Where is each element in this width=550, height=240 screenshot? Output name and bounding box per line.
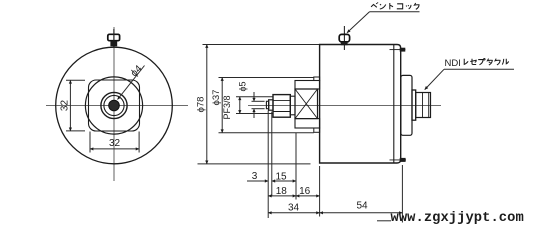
hex flat line top — [273, 99, 290, 101]
dim 34: dimension line — [268, 212, 319, 214]
dim phi78: dimension line — [206, 45, 208, 164]
watermark stray line — [377, 220, 391, 222]
side view: body seam line — [393, 45, 395, 164]
front view: phi4 hole (hatched) — [109, 100, 120, 111]
top lug — [400, 48, 406, 52]
label receptacle katakana — [464, 58, 508, 65]
svg-text:3: 3 — [252, 171, 258, 182]
side view: body outline — [320, 45, 401, 164]
dim PF3/8: dimension line — [239, 97, 241, 114]
svg-text:32: 32 — [109, 138, 121, 149]
dim 32 horizontal: extension lines — [89, 132, 91, 153]
svg-text:www.zgxjjypt.com: www.zgxjjypt.com — [391, 210, 524, 226]
barrel inner line 1 — [422, 93, 424, 118]
front view: horizontal centerline — [46, 105, 188, 107]
barrel inner line 2 — [428, 93, 430, 118]
pu — [478, 58, 485, 64]
dim 16: dimension line — [296, 195, 320, 197]
dim PF3/8: extension lines — [236, 96, 273, 98]
top lug line — [390, 49, 406, 51]
re — [464, 59, 468, 65]
dim 18: dimension line — [268, 195, 296, 197]
dim 32 vertical: dimension line — [69, 80, 71, 131]
svg-text:32: 32 — [59, 100, 70, 112]
front view: inner circle 1 — [101, 92, 127, 118]
svg-text:16: 16 — [299, 186, 311, 197]
side view: horizontal centerline — [248, 104, 441, 106]
svg-text:NDI: NDI — [445, 58, 461, 69]
side view: vent cock stem centerline — [343, 26, 345, 50]
svg-text:18: 18 — [276, 186, 288, 197]
label NDI receptacle leader — [425, 69, 444, 89]
front view: rounded square boss 32x32 — [89, 80, 140, 131]
ku — [495, 59, 500, 65]
hex flat line bottom — [273, 111, 290, 113]
small tsu — [406, 5, 411, 9]
dim 32 horizontal: dimension line — [90, 148, 139, 150]
to — [390, 3, 393, 9]
se — [470, 59, 476, 65]
front view: vent stem — [113, 29, 115, 47]
svg-text:15: 15 — [275, 171, 287, 182]
front view: hub circle — [85, 77, 142, 134]
be — [371, 2, 378, 7]
bottom dims: extension line at pipe tip — [267, 111, 269, 219]
side view: top step — [314, 77, 320, 81]
svg-text:ϕ78: ϕ78 — [195, 97, 206, 113]
dim 54: dimension line — [320, 212, 403, 214]
front view: vertical centerline — [113, 27, 115, 181]
front view: vent cock knob — [108, 34, 120, 40]
svg-text:PF3/8: PF3/8 — [222, 95, 232, 119]
label vent cock leader underline — [370, 11, 420, 13]
side view: square boss face (X-box) — [295, 89, 318, 119]
extension line at body face — [319, 166, 321, 217]
dim phi5: extension lines — [252, 100, 265, 102]
front view: body circle (phi78) — [56, 47, 173, 164]
bottom lug line — [390, 159, 407, 161]
ta — [487, 59, 492, 65]
svg-text:ϕ5: ϕ5 — [238, 81, 248, 91]
dim 3: tail with arrow — [247, 180, 268, 182]
front view: vent cock base — [110, 41, 117, 46]
svg-text:ϕ4: ϕ4 — [129, 63, 145, 79]
label vent cock leader — [347, 12, 370, 33]
extension line at hex face — [271, 112, 273, 197]
bottom lug — [400, 158, 406, 162]
side view: pipe stub phi5 — [266, 101, 268, 108]
ru — [502, 59, 508, 65]
svg-text:34: 34 — [288, 203, 300, 214]
side view: bottom plate of boss — [295, 119, 320, 128]
side view: thread neck — [290, 96, 295, 115]
n — [380, 4, 386, 9]
dim phi5: upper arrow — [253, 92, 255, 101]
svg-text:54: 54 — [356, 201, 368, 212]
side view: receptacle barrel — [416, 93, 431, 118]
label NDI receptacle underline — [444, 68, 514, 70]
dim 15: dimension line — [272, 180, 296, 182]
label vent cock text (bentokokku) — [371, 2, 419, 9]
side view: hex nut — [273, 95, 290, 118]
side view: bottom step — [314, 128, 320, 132]
dim phi37: extension lines — [219, 77, 314, 79]
dim phi78: extension lines — [203, 44, 320, 46]
side view: rear flange disc — [401, 75, 412, 135]
side view: vent cock base — [341, 42, 348, 45]
front view: inner circle 2 — [104, 95, 124, 115]
ko — [397, 4, 403, 9]
side view: top plate of boss — [295, 81, 320, 90]
extension line at boss face — [295, 133, 297, 200]
dim 32 vertical: extension lines — [66, 79, 85, 81]
side view: step ring — [412, 90, 416, 120]
dim phi5: lower arrow — [253, 109, 255, 118]
dim phi37: dimension line — [221, 78, 223, 133]
side view: collar — [269, 100, 273, 110]
svg-text:ϕ37: ϕ37 — [211, 90, 222, 106]
leader phi4 — [118, 66, 145, 100]
X-box diagonal 1 — [295, 89, 318, 119]
ku — [414, 3, 419, 9]
side view: vent cock knob — [339, 34, 349, 42]
extension line at rear — [401, 165, 403, 223]
X-box diagonal 2 — [295, 89, 318, 119]
